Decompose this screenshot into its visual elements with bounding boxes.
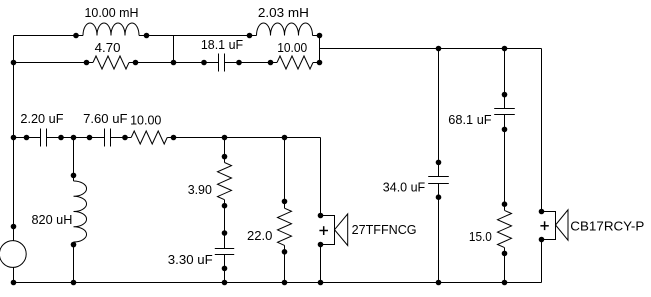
svg-text:3.30 uF: 3.30 uF [168, 252, 213, 267]
svg-text:7.60 uF: 7.60 uF [83, 111, 127, 126]
svg-text:10.00 mH: 10.00 mH [85, 5, 139, 20]
svg-text:CB17RCY-P: CB17RCY-P [570, 218, 644, 233]
svg-text:820 uH: 820 uH [32, 212, 73, 227]
svg-text:10.00: 10.00 [277, 40, 307, 55]
svg-text:3.90: 3.90 [188, 182, 212, 197]
svg-text:15.0: 15.0 [469, 229, 492, 244]
svg-text:34.0 uF: 34.0 uF [383, 180, 425, 195]
svg-text:18.1 uF: 18.1 uF [201, 37, 243, 52]
svg-text:22.0: 22.0 [247, 228, 272, 243]
svg-text:2.03 mH: 2.03 mH [258, 5, 309, 20]
svg-text:4.70: 4.70 [95, 40, 121, 55]
svg-text:2.20 uF: 2.20 uF [20, 111, 63, 126]
svg-text:27TFFNCG: 27TFFNCG [352, 222, 417, 237]
svg-text:10.00: 10.00 [130, 113, 161, 128]
svg-text:68.1 uF: 68.1 uF [448, 112, 491, 127]
